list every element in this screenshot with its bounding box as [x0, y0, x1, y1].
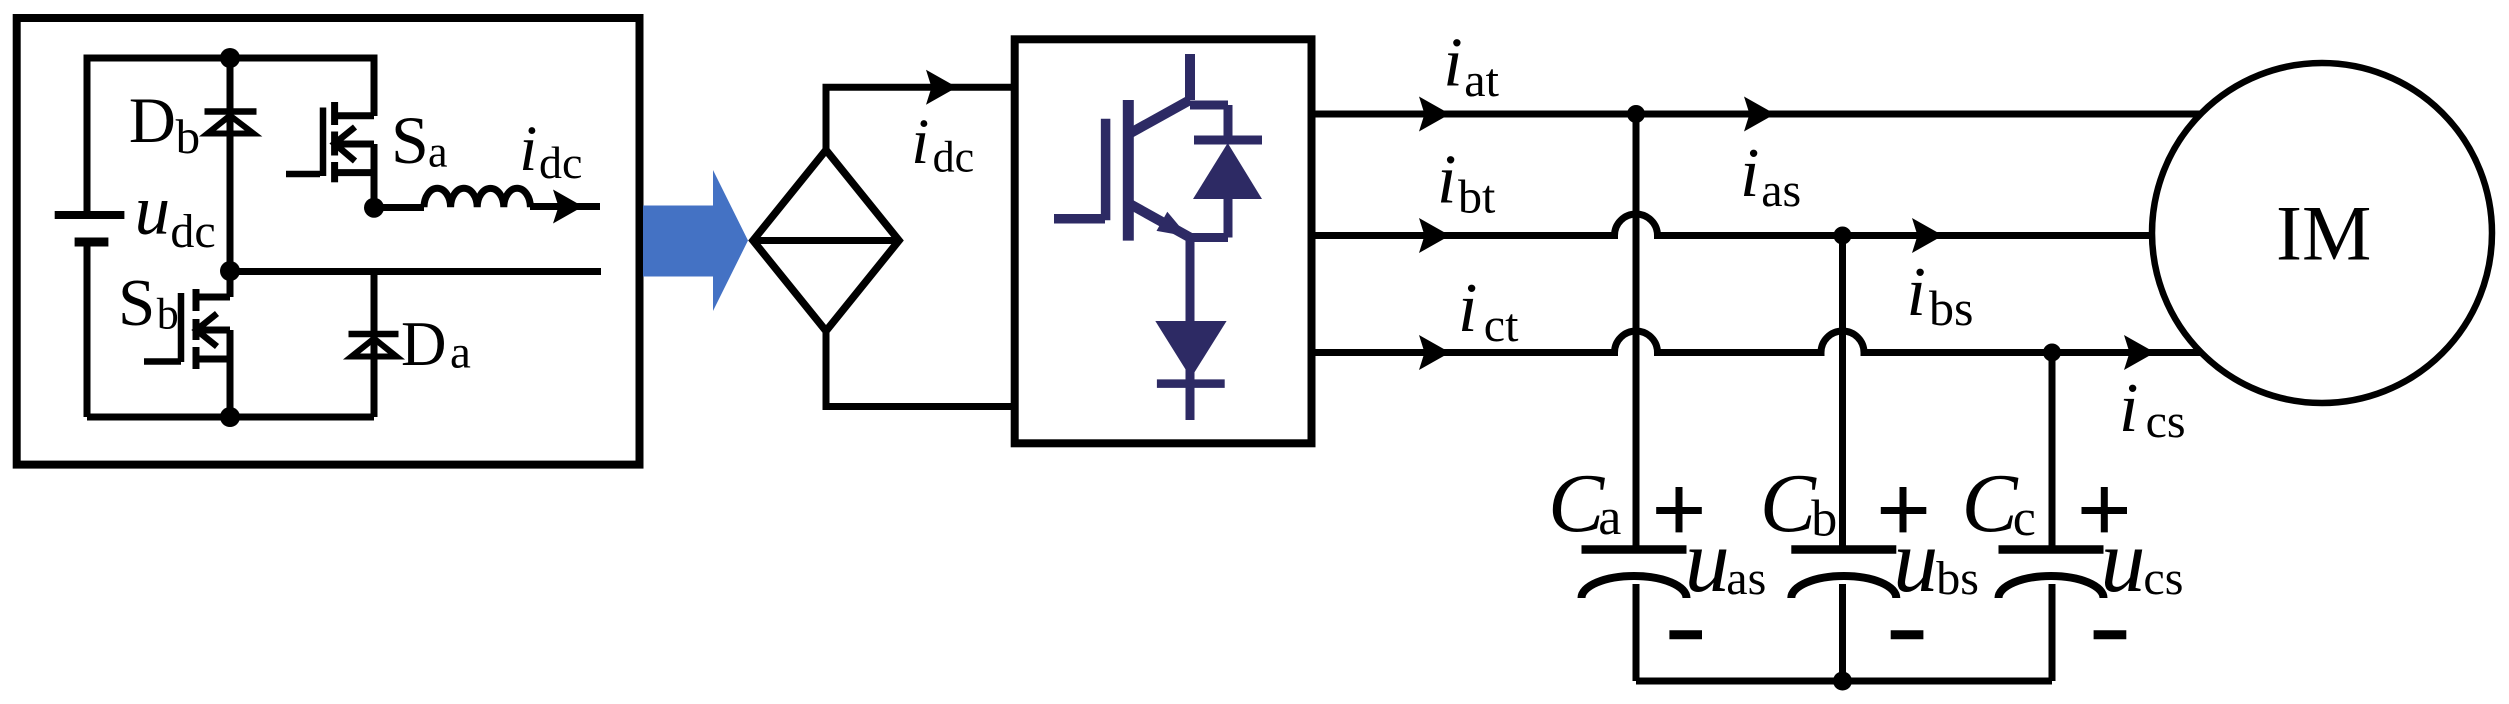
blue arrow: [643, 170, 748, 311]
svg-text:D: D: [129, 85, 176, 157]
node: mid rail / Db / Sb: [220, 261, 240, 281]
IGBT collector diagonal: [1128, 100, 1190, 134]
node: line a tap: [1627, 105, 1645, 123]
wire: diamond bottom to inverter: [826, 331, 1011, 407]
arrowhead idc (to inverter): [926, 70, 957, 105]
svg-text:i: i: [1437, 142, 1456, 219]
freewheel diode bottom connect: [1190, 233, 1228, 242]
diode Da lead wire: [371, 272, 378, 418]
wire: tap a down to Ca: [1633, 114, 1640, 550]
svg-text:bs: bs: [1936, 552, 1979, 605]
freewheel diode bar: [1194, 136, 1262, 145]
node: Sa source / inductor: [364, 198, 384, 218]
svg-text:IM: IM: [2276, 190, 2371, 277]
svg-text:S: S: [391, 102, 429, 178]
svg-text:a: a: [450, 326, 471, 378]
minus Ca: [1669, 630, 1702, 639]
emitter vertical wire: [1186, 238, 1195, 421]
svg-text:c: c: [2013, 490, 2036, 547]
svg-text:u: u: [2101, 512, 2146, 611]
MOSFET Sb: [144, 271, 230, 417]
arrowhead idc: [553, 190, 583, 224]
node: bus / Cb: [1833, 672, 1852, 691]
wire: phase line b (ibt) with hop: [1311, 214, 2152, 236]
chopper module box: [17, 18, 640, 465]
wire: mid rail stub: [230, 268, 601, 275]
plus Ca: [1656, 487, 1702, 532]
svg-text:cs: cs: [2146, 395, 2186, 448]
svg-text:ct: ct: [1484, 299, 1519, 352]
plus Cc: [2082, 487, 2128, 532]
svg-text:cs: cs: [2143, 552, 2183, 605]
node: bottom rail / Sb: [220, 407, 240, 427]
MOSFET Sa: [286, 102, 374, 208]
wire: bottom rail: [87, 414, 374, 421]
svg-text:D: D: [401, 309, 447, 379]
arrowhead ict: [1419, 335, 1450, 370]
IGBT channel bar: [1123, 100, 1134, 241]
diode Db lead wire: [227, 58, 234, 271]
svg-text:i: i: [519, 113, 537, 185]
svg-text:S: S: [118, 266, 155, 340]
IGBT gate bar: [1101, 119, 1111, 221]
arrowhead ibs: [1912, 218, 1943, 253]
capacitor Cb: [1791, 545, 1896, 554]
IGBT gate lead: [1054, 214, 1105, 224]
svg-text:as: as: [1761, 164, 1801, 217]
minus Cb: [1891, 630, 1924, 639]
minus Cc: [2094, 630, 2127, 639]
wire: top rail from battery to Sa drain: [87, 58, 374, 215]
svg-text:i: i: [1443, 25, 1462, 102]
svg-text:b: b: [157, 289, 179, 338]
wire: diamond top to inverter: [826, 87, 1011, 150]
node: line c tap: [2043, 344, 2061, 362]
IGBT with freewheel diodes (inverter symbol): [1054, 54, 1262, 420]
battery udc: [55, 211, 125, 219]
svg-text:C: C: [1760, 457, 1817, 550]
svg-text:u: u: [135, 172, 171, 250]
svg-text:b: b: [176, 109, 201, 164]
wire: tap c down to Cc: [2049, 353, 2056, 550]
IGBT collector lead: [1185, 54, 1195, 100]
node: line b tap: [1834, 227, 1852, 245]
inductor idc: [374, 204, 424, 211]
svg-text:dc: dc: [933, 132, 975, 181]
arrowhead ias: [1744, 97, 1775, 132]
svg-text:bt: bt: [1458, 171, 1496, 224]
freewheel diode top connect: [1190, 101, 1228, 110]
svg-text:C: C: [1962, 457, 2019, 550]
arrowhead iat: [1419, 97, 1450, 132]
svg-text:C: C: [1548, 457, 1605, 550]
series diode triangle: [1155, 321, 1226, 378]
svg-text:i: i: [2119, 370, 2138, 447]
capacitor Ca: [1582, 545, 1687, 554]
svg-text:i: i: [1458, 270, 1477, 347]
svg-text:b: b: [1811, 490, 1837, 547]
svg-text:bs: bs: [1929, 280, 1973, 336]
freewheel diode triangle: [1193, 143, 1262, 199]
diode Da: [349, 331, 399, 338]
series diode bar: [1157, 379, 1225, 388]
svg-text:u: u: [1685, 512, 1730, 611]
induction motor IM: [2152, 63, 2492, 403]
arrowhead ibt: [1419, 218, 1450, 253]
IGBT emitter diagonal: [1128, 203, 1190, 238]
svg-text:at: at: [1464, 54, 1499, 107]
svg-text:a: a: [1598, 489, 1621, 546]
svg-text:dc: dc: [539, 137, 582, 188]
controlled current source diamond: [753, 150, 899, 331]
freewheel diode cathode wire: [1224, 105, 1233, 140]
svg-text:i: i: [1907, 254, 1926, 331]
inverter box: [1015, 39, 1312, 443]
IGBT emitter arrowhead: [1157, 212, 1189, 237]
svg-text:a: a: [428, 128, 448, 177]
svg-text:as: as: [1726, 552, 1766, 605]
arrowhead ics: [2124, 335, 2155, 370]
wire: phase line a (iat): [1311, 111, 2210, 118]
freewheel diode anode wire: [1224, 199, 1233, 238]
wire: tap b down to Cb: [1839, 236, 1846, 550]
wire: capacitor common bus: [1636, 678, 2052, 685]
svg-text:u: u: [1893, 512, 1938, 611]
wire: phase line c (ict) with two hops: [1311, 331, 2210, 353]
capacitor Cc: [1999, 545, 2104, 554]
svg-text:dc: dc: [170, 205, 215, 258]
plus Cb: [1881, 487, 1927, 532]
node: top rail / Db: [220, 48, 240, 68]
svg-text:i: i: [911, 106, 929, 178]
diode Db: [205, 108, 257, 115]
svg-text:i: i: [1740, 135, 1759, 212]
